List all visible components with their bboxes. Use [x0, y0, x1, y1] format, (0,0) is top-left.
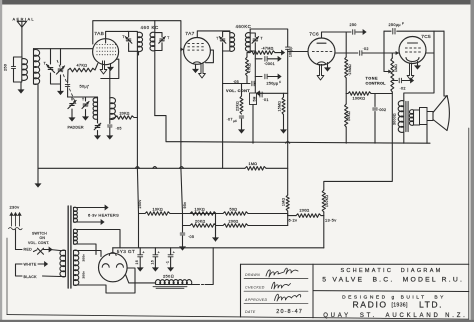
capacitor 16μF second — [153, 248, 158, 271]
signature checked — [272, 282, 291, 289]
output transformer primary 3000Ω — [398, 101, 404, 144]
tube 7A7 — [184, 38, 211, 65]
power transformer core — [68, 206, 71, 288]
wire RF coil bottom to HT bus — [34, 84, 39, 168]
ground aerial primary — [18, 82, 23, 93]
label 5 VALVE BC MODEL RU — [322, 276, 464, 283]
svg-text:6·3v HEATERS: 6·3v HEATERS — [88, 213, 119, 218]
junction bumps on buses — [135, 142, 289, 169]
label AERIAL — [13, 17, 35, 22]
svg-text:·07: ·07 — [227, 118, 233, 122]
resistor 10KΩ row1b — [139, 212, 217, 216]
resistor 22KΩ — [240, 84, 243, 115]
svg-text:+: + — [173, 251, 175, 255]
wire top rail grid return — [93, 21, 155, 44]
volume potentiometer 5MΩ — [250, 93, 257, 105]
svg-text:[1936]: [1936] — [392, 303, 408, 309]
svg-text:+: + — [158, 251, 160, 255]
cathode 7A7 — [193, 62, 201, 64]
hollow arrow 7A7 — [199, 63, 206, 78]
label 50Ω — [230, 207, 238, 211]
wire filter junction up — [215, 226, 217, 242]
label ·0001 — [264, 62, 275, 66]
IF2 secondary trimmer — [250, 33, 263, 52]
svg-text:250μμ: 250μμ — [389, 23, 401, 27]
mains plug — [9, 213, 23, 250]
label 250 plate cap — [350, 23, 357, 27]
capacitor ·05 oscillator — [108, 119, 112, 127]
IF1 secondary coil — [150, 21, 155, 51]
ground RF tuning — [58, 84, 63, 95]
resistor 47KΩ detector — [246, 57, 249, 84]
label 7C6 — [309, 31, 319, 37]
label 10KΩ row1a — [153, 207, 164, 211]
capacitor ·02 tone — [392, 78, 413, 83]
label plus 16 second — [150, 251, 160, 265]
svg-text:15MΩ: 15MΩ — [278, 101, 282, 112]
label 13·5V — [325, 217, 337, 222]
tone pot wiper arrow — [384, 70, 392, 74]
wire rail to 7A7 grid — [155, 21, 181, 50]
svg-text:ON: ON — [40, 236, 46, 240]
svg-text:F: F — [402, 21, 404, 25]
wire 7AB screen loop — [101, 59, 119, 78]
wire red lead — [16, 250, 38, 252]
svg-text:100KΩ: 100KΩ — [325, 195, 329, 207]
drawing border frame — [7, 128, 469, 319]
wire IF1 primary down — [136, 51, 138, 117]
svg-text:1MΩ: 1MΩ — [281, 198, 285, 206]
label 10KΩ row1b — [195, 207, 206, 211]
svg-text:CHECKED: CHECKED — [245, 286, 265, 290]
svg-text:SCHEMATIC DIAGRAM: SCHEMATIC DIAGRAM — [340, 268, 442, 274]
label ·05 oscillator — [116, 127, 122, 131]
output transformer core — [406, 102, 408, 132]
aerial primary coil — [14, 57, 28, 82]
label 5Y3 GT — [117, 249, 135, 254]
wire IF1 secondary down — [154, 51, 156, 116]
svg-text:7AB: 7AB — [94, 31, 104, 37]
svg-text:16: 16 — [135, 260, 139, 265]
resistor 20KΩ row2 — [183, 224, 224, 228]
label 50μF — [80, 84, 90, 89]
wire RF top rail — [34, 48, 93, 50]
wire rectifier output — [126, 275, 156, 283]
wire AVC lower column — [222, 84, 224, 169]
svg-text:1MΩ: 1MΩ — [249, 162, 258, 166]
heater arrows — [74, 205, 109, 224]
wire filter rail — [113, 247, 324, 249]
label SWITCH ON VOL CONT — [28, 231, 49, 245]
IF2 primary trimmer — [216, 31, 230, 51]
title block frame — [241, 264, 469, 317]
label 250 — [4, 64, 8, 71]
label 1MΩ divider — [281, 198, 285, 206]
svg-text:RED: RED — [24, 247, 33, 251]
svg-text:5M: 5M — [252, 96, 256, 101]
choke 250Ω — [153, 280, 192, 289]
label 460KC second IF — [236, 24, 252, 29]
IF2 primary coil — [223, 33, 235, 52]
wire 7C6 grid — [288, 51, 308, 53]
svg-text:CONTROL: CONTROL — [366, 82, 387, 86]
label 100μμ — [289, 47, 293, 58]
svg-text:20KΩ: 20KΩ — [120, 112, 130, 116]
svg-text:F: F — [279, 80, 281, 84]
svg-text:300v: 300v — [82, 271, 86, 279]
ground osc gang — [69, 109, 74, 121]
signature approved — [275, 294, 301, 301]
wire detector B column — [287, 143, 289, 195]
svg-text:20-8-47: 20-8-47 — [276, 309, 303, 315]
ground 22KΩ — [239, 119, 244, 133]
label ·05 AVC — [233, 80, 239, 84]
arrow 7C6 diode — [325, 63, 330, 72]
label DRAWN — [245, 273, 260, 277]
svg-text:BLACK: BLACK — [24, 275, 38, 279]
arrow 7AB oscillator grid — [108, 64, 113, 71]
padder trimmer — [94, 119, 101, 130]
svg-text:200Ω: 200Ω — [229, 219, 239, 223]
label 200Ω row2 — [229, 219, 239, 223]
label CHECKED — [245, 286, 265, 290]
label ·01 — [263, 98, 269, 102]
svg-text:T: T — [122, 35, 124, 39]
label 7AB — [94, 31, 104, 37]
wire osc grid column — [67, 70, 69, 83]
svg-text:16: 16 — [150, 260, 154, 265]
svg-text:·01: ·01 — [263, 98, 269, 102]
label 1MΩ tone — [394, 64, 398, 72]
ground padder — [95, 131, 100, 140]
svg-text:10KΩ: 10KΩ — [195, 207, 206, 211]
arrow 7C5 — [415, 62, 420, 70]
svg-text:50Ω: 50Ω — [230, 207, 238, 211]
oscillator coil secondary — [110, 71, 116, 120]
wire white lead — [16, 262, 48, 266]
capacitor 100μμF — [286, 47, 290, 143]
label 100KΩ screen — [353, 97, 366, 101]
rectifier heater winding — [74, 229, 78, 244]
antenna coupling capacitor — [11, 57, 22, 82]
svg-text:460KC: 460KC — [236, 24, 252, 29]
label RADIO 1936 LTD — [353, 299, 443, 309]
label plus 16 first — [135, 251, 145, 265]
svg-text:20KΩ: 20KΩ — [195, 219, 206, 223]
RF secondary coil — [34, 49, 40, 85]
wire osc trimmer branch — [68, 96, 98, 98]
capacitor ·01 coupling — [260, 92, 288, 97]
svg-text:5 VALVE B.C. MODEL R.U.: 5 VALVE B.C. MODEL R.U. — [322, 276, 464, 283]
wire field top — [444, 95, 448, 97]
svg-text:T: T — [216, 37, 218, 41]
svg-text:47KΩ: 47KΩ — [77, 64, 88, 68]
svg-text:PADDER: PADDER — [68, 126, 84, 130]
cathode arrow 7AB — [100, 61, 107, 75]
svg-text:·47MΩ: ·47MΩ — [261, 47, 274, 51]
svg-text:A E R I A L: A E R I A L — [13, 17, 35, 22]
label 22KΩ — [236, 101, 240, 111]
tone control potentiometer 1MΩ — [391, 53, 394, 92]
label 1MΩ bus — [249, 162, 258, 166]
svg-text:22KΩ: 22KΩ — [236, 101, 240, 111]
label 460 KC first IF — [141, 25, 160, 30]
svg-text:47KΩ: 47KΩ — [247, 63, 251, 73]
svg-text:TONE: TONE — [366, 76, 378, 80]
tube 5Y3 rectifier — [99, 253, 128, 282]
svg-text:10KΩ: 10KΩ — [153, 207, 164, 211]
gang dashed link — [57, 60, 76, 104]
wire 250V column — [137, 51, 138, 248]
ground osc cap — [107, 128, 112, 139]
svg-text:DATE: DATE — [245, 310, 256, 314]
svg-text:1MΩ: 1MΩ — [394, 64, 398, 72]
label 100KΩ divider — [325, 195, 329, 207]
arrow red to transformer — [44, 247, 61, 251]
wire black lead — [16, 264, 61, 277]
wire 7AB plate to IF1 — [106, 31, 128, 38]
svg-text:·05: ·05 — [188, 235, 194, 239]
resistor ·24MΩ — [345, 57, 348, 94]
label 250μμF feedback — [389, 21, 405, 27]
label BLACK — [24, 275, 38, 279]
svg-text:·0001: ·0001 — [264, 62, 275, 66]
svg-text:300v: 300v — [82, 254, 86, 262]
label ·02 tone — [400, 86, 406, 90]
gang capacitor oscillator section — [68, 97, 77, 109]
capacitor ·002 — [373, 94, 378, 144]
capacitor 50μF — [65, 85, 70, 97]
arrow AVC to detector — [275, 50, 285, 54]
label 6·2V — [289, 218, 298, 223]
svg-text:APPROVED: APPROVED — [244, 298, 267, 302]
oscillator coil primary — [93, 97, 97, 119]
svg-text:13·5v: 13·5v — [325, 217, 337, 222]
svg-text:50μƒ: 50μƒ — [80, 84, 90, 89]
ground ·05 bypass — [180, 236, 185, 250]
heater winding 6.3V — [74, 207, 78, 222]
label QUAY ST AUCKLAND NZ — [323, 313, 467, 319]
svg-text:·05: ·05 — [233, 80, 239, 84]
label 6·3V HEATERS — [88, 213, 119, 218]
svg-text:250: 250 — [350, 23, 357, 27]
ground grid leak — [281, 115, 286, 134]
resistor ·47MΩ AVC — [247, 51, 275, 57]
output transformer secondary — [409, 110, 419, 126]
ground tap on bus — [35, 168, 40, 187]
svg-text:WHITE: WHITE — [24, 262, 37, 266]
svg-text:+: + — [142, 251, 144, 255]
label TONE CONTROL — [366, 76, 387, 85]
label date value — [276, 309, 303, 315]
svg-text:250Ω: 250Ω — [163, 274, 174, 279]
signature drawn — [266, 268, 298, 277]
label 20KΩ oscillator — [120, 112, 130, 116]
capacitor ·1 — [168, 248, 173, 271]
IF1 secondary trimmer — [155, 33, 170, 51]
svg-text:6·2v: 6·2v — [289, 218, 298, 223]
wire rectifier heater top — [74, 230, 121, 248]
tube 7C6 — [308, 38, 335, 65]
svg-text:·002: ·002 — [378, 108, 387, 112]
resistor 100KΩ screen — [346, 92, 392, 96]
title row lines — [244, 279, 308, 304]
svg-text:7C6: 7C6 — [309, 31, 319, 37]
power transformer primary — [60, 250, 66, 277]
junction column ground arrow — [213, 214, 218, 242]
svg-text:SWITCH: SWITCH — [32, 231, 47, 235]
resistor 50Ω — [216, 212, 288, 216]
wire rectifier cathode to filter — [112, 248, 114, 253]
aerial antenna — [17, 21, 26, 57]
svg-text:·24MΩ: ·24MΩ — [348, 64, 352, 76]
wire 7C6 plate — [322, 32, 347, 38]
label ·05 bypass — [188, 235, 194, 239]
wire B plus line — [155, 116, 430, 144]
svg-text:3000Ω: 3000Ω — [392, 113, 396, 125]
wire choke to filter rail — [191, 248, 213, 285]
resistor 10KΩ row1a — [145, 212, 216, 216]
svg-text:95v: 95v — [183, 202, 187, 209]
svg-text:VOL. CONT.: VOL. CONT. — [28, 241, 49, 245]
label SCHEMATIC DIAGRAM — [340, 268, 442, 274]
svg-text:VOL. CONT: VOL. CONT — [226, 88, 250, 93]
label DATE — [245, 310, 256, 314]
gang capacitor RF section — [56, 49, 64, 84]
svg-text:LTD.: LTD. — [419, 299, 443, 309]
wiper arrow volume — [257, 91, 264, 95]
wire detector column — [254, 52, 256, 92]
svg-text:·02: ·02 — [363, 47, 369, 51]
resistor 200Ω row2 — [223, 224, 288, 228]
tube 7C5 — [399, 37, 426, 64]
wire speaker to B plus line — [426, 124, 428, 143]
svg-text:·1: ·1 — [166, 261, 170, 265]
wire HT bus — [38, 167, 288, 169]
wire 7C6 plate coupling — [335, 51, 384, 56]
svg-text:200Ω: 200Ω — [300, 209, 310, 213]
tube 7AB — [93, 39, 119, 65]
label 200Ω bias — [300, 209, 310, 213]
label 7A7 — [185, 31, 194, 37]
label VOL. CONT — [226, 88, 250, 93]
resistor 200Ω bias — [288, 214, 324, 218]
capacitor 16μF first — [138, 248, 143, 271]
label ·07μF — [227, 118, 238, 123]
wire pot bottom — [252, 105, 254, 144]
resistor 47KΩ oscillator grid — [68, 64, 98, 72]
label 3000Ω — [392, 113, 396, 125]
svg-text:T: T — [261, 37, 263, 41]
svg-text:10KΩ: 10KΩ — [347, 111, 351, 121]
label ·002 — [378, 108, 387, 112]
label ·24MΩ — [348, 64, 352, 76]
label 15MΩ — [278, 101, 282, 112]
capacitor 250μμF plate — [346, 30, 366, 35]
wire 7A7 plate — [197, 31, 230, 38]
wire rectifier heater bottom — [74, 244, 97, 255]
label 300v lower — [82, 271, 86, 279]
label 47KΩ detector — [247, 63, 251, 73]
grid arrow 7A7 — [180, 47, 183, 51]
wire 7C5 plate to OT — [404, 31, 434, 101]
svg-text:7A7: 7A7 — [185, 31, 194, 37]
label DESIGNED BUILT BY — [342, 294, 446, 300]
label WHITE — [24, 262, 37, 266]
svg-text:5Y3 GT: 5Y3 GT — [117, 249, 135, 254]
label 300v upper — [82, 254, 86, 262]
hollow arrow 7C6 — [317, 64, 324, 80]
resistor 100KΩ field divider — [322, 190, 325, 248]
svg-text:7C5: 7C5 — [421, 34, 431, 40]
IF2 secondary coil — [245, 29, 255, 51]
svg-text:·05: ·05 — [116, 127, 122, 131]
svg-text:460 KC: 460 KC — [141, 25, 160, 30]
svg-text:T: T — [167, 36, 169, 40]
resistor 20KΩ oscillator — [110, 116, 138, 119]
capacitor ·07μF — [239, 116, 243, 118]
IF1 primary coil — [128, 31, 143, 51]
wire ·24MΩ column top — [345, 32, 347, 57]
HT winding — [74, 250, 79, 285]
svg-text:RADIO: RADIO — [353, 299, 388, 309]
svg-text:250μμ: 250μμ — [267, 81, 279, 85]
label 250μμF detector — [267, 80, 282, 86]
resistor 10KΩ dropper — [345, 94, 348, 144]
capacitor 250μμF detector — [255, 74, 281, 79]
wire IF2 primary down — [222, 51, 224, 84]
wire IF2 secondary to 7C6 grid cap — [250, 29, 288, 47]
svg-text:100KΩ: 100KΩ — [353, 97, 366, 101]
svg-text:QUAY ST. AUCKLAND N.Z.: QUAY ST. AUCKLAND N.Z. — [323, 313, 467, 319]
svg-text:·02: ·02 — [400, 86, 406, 90]
svg-text:230v: 230v — [10, 205, 20, 210]
label 20KΩ row2 — [195, 219, 206, 223]
label T osc trimmer — [82, 98, 84, 102]
wire tone pot bottom — [391, 92, 393, 143]
wire HT bottom to plate — [74, 268, 136, 293]
switch on volume control — [38, 248, 44, 254]
label 230V — [10, 205, 20, 210]
speaker — [420, 96, 450, 131]
svg-text:T: T — [82, 98, 84, 102]
label 47KΩ oscillator — [77, 64, 88, 68]
wire 7A7 screen loop — [206, 50, 214, 63]
label ·47MΩ — [261, 47, 274, 51]
label APPROVED — [244, 298, 267, 302]
capacitor ·05 AVC — [223, 81, 256, 86]
label 7C5 — [421, 34, 431, 40]
trimmer oscillator — [82, 97, 89, 120]
label ·1 — [166, 251, 176, 265]
wire grid column 7C5 — [383, 31, 385, 71]
capacitor ·05 bypass — [180, 233, 185, 235]
capacitor 250μμF feedback — [384, 28, 444, 34]
wire 7C5 grid — [384, 51, 399, 55]
wire AVC column — [180, 49, 182, 168]
label PADDER — [68, 126, 84, 130]
svg-text:μF: μF — [233, 119, 237, 123]
label 10KΩ dropper — [347, 111, 351, 121]
IF1 primary trimmer — [122, 31, 131, 51]
resistor 1MΩ divider — [286, 195, 289, 226]
capacitor ·0001 — [255, 57, 281, 62]
wire B+ to speaker field — [443, 31, 445, 96]
wire screen feed right — [324, 143, 393, 190]
label RED — [24, 247, 33, 251]
label 95V — [183, 202, 187, 209]
svg-text:250: 250 — [4, 64, 8, 71]
